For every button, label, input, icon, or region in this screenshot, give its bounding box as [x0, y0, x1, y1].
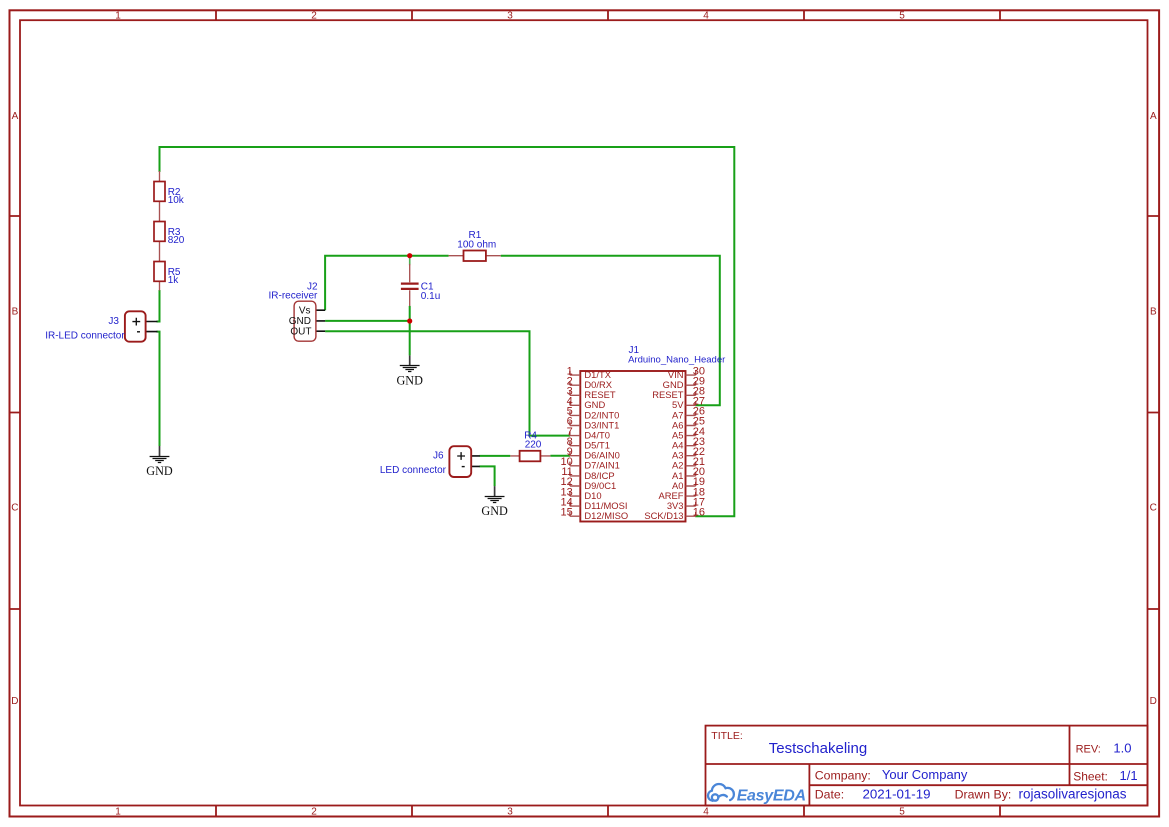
J1 pin 16 SCK/D13 — [644, 506, 705, 521]
J1 pin 12 D9/0C1 — [561, 476, 617, 491]
svg-text:820: 820 — [168, 235, 185, 246]
svg-text:Sheet:: Sheet: — [1073, 769, 1108, 783]
J1 pin 17 3V3 — [667, 496, 705, 511]
svg-text:2: 2 — [311, 11, 317, 22]
svg-text:rojasolivaresjonas: rojasolivaresjonas — [1019, 787, 1127, 802]
J1 pin 29 GND — [663, 375, 705, 390]
svg-text:OUT: OUT — [290, 327, 311, 338]
svg-text:3: 3 — [507, 11, 513, 22]
wire R1 right to J1 pin27 5V — [501, 256, 720, 406]
resistor R2 — [154, 171, 185, 222]
J1 pin 21 A2 — [672, 456, 705, 471]
J1 pin 20 A1 — [672, 466, 705, 481]
svg-text:J3: J3 — [108, 316, 119, 327]
connector J2 — [289, 301, 325, 341]
title block frame — [706, 726, 1148, 806]
J1 pin 23 A4 — [672, 436, 705, 451]
J1 pin 19 A0 — [672, 476, 705, 491]
resistor R3 — [154, 222, 185, 262]
wire R4 right to J1 pin9 D6/AIN0 — [550, 455, 570, 457]
resistor R1 — [449, 251, 501, 262]
ground below J6 — [481, 486, 508, 518]
svg-text:2021-01-19: 2021-01-19 — [863, 786, 931, 801]
wire R5 bottom to J3 pin + — [157, 290, 160, 322]
svg-text:D12/MISO: D12/MISO — [584, 510, 628, 521]
resistor R4 — [510, 451, 550, 462]
svg-text:C: C — [11, 503, 18, 514]
svg-text:Vs: Vs — [299, 306, 311, 317]
J1 pin 10 D7/AIN1 — [561, 456, 620, 471]
J1 pin 4 GND — [567, 396, 606, 411]
EasyEDA logo cloud — [708, 784, 734, 801]
J1 pin 6 D3/INT1 — [567, 416, 620, 431]
J1 pin 5 D2/INT0 — [567, 406, 620, 421]
svg-text:J6: J6 — [433, 451, 444, 462]
svg-text:3: 3 — [507, 807, 513, 818]
wire net VCC top: R2 top to J1 pin16 SCK/D13 — [160, 147, 735, 516]
J1 pin 24 A5 — [672, 426, 705, 441]
ground below J3 — [146, 446, 173, 478]
svg-text:Testschakeling: Testschakeling — [769, 740, 867, 757]
wire J3 pin - to GND — [157, 332, 160, 446]
svg-text:Date:: Date: — [815, 788, 844, 802]
J1 pin 9 D6/AIN0 — [567, 446, 620, 461]
resistor R5 — [154, 262, 181, 291]
svg-text:Arduino_Nano_Header: Arduino_Nano_Header — [628, 354, 725, 365]
J1 pin 11 D8/ICP — [561, 466, 614, 481]
IC J1 Arduino_Nano_Header body — [580, 371, 685, 522]
svg-text:5: 5 — [899, 11, 905, 22]
wire J6 pin - to GND — [480, 466, 495, 486]
svg-text:2: 2 — [311, 807, 317, 818]
svg-text:Your Company: Your Company — [882, 767, 968, 782]
svg-text:100 ohm: 100 ohm — [457, 240, 496, 251]
wire J6 pin + to R4 left — [480, 455, 511, 457]
J1 pin 27 5V — [672, 396, 705, 411]
wire J2 GND pin to junction — [325, 320, 410, 322]
svg-text:LED connector: LED connector — [380, 465, 447, 476]
capacitor C1 — [401, 264, 419, 306]
svg-text:1.0: 1.0 — [1113, 740, 1131, 755]
svg-text:16: 16 — [693, 506, 705, 518]
svg-text:A: A — [12, 111, 19, 122]
J1 pin 30 VIN — [668, 365, 705, 380]
J1 pin 3 RESET — [567, 386, 616, 401]
ruler row letters — [11, 111, 1157, 707]
J1 pin 14 D11/MOSI — [561, 496, 628, 511]
svg-text:D: D — [1150, 696, 1157, 707]
svg-text:Drawn By:: Drawn By: — [955, 788, 1012, 802]
J1 pin 15 D12/MISO — [561, 506, 629, 521]
svg-text:C: C — [1150, 503, 1157, 514]
wire C1 bottom to GND symbol — [409, 306, 411, 356]
svg-text:0.1u: 0.1u — [421, 291, 440, 302]
wire J2 Vs to R1 left — [325, 256, 449, 311]
svg-text:EasyEDA: EasyEDA — [737, 788, 806, 805]
svg-text:15: 15 — [561, 506, 573, 518]
svg-text:10k: 10k — [168, 195, 185, 206]
svg-text:D: D — [11, 696, 18, 707]
svg-text:1/1: 1/1 — [1120, 768, 1138, 783]
J1 pin 25 A6 — [672, 416, 705, 431]
svg-text:TITLE:: TITLE: — [711, 730, 743, 742]
svg-text:B: B — [12, 307, 19, 318]
svg-text:1: 1 — [115, 11, 121, 22]
junction dot at C1 top net — [407, 253, 412, 258]
J1 pin 22 A3 — [672, 446, 705, 461]
J1 pin 1 D1/TX — [567, 365, 612, 380]
J1 pin 26 A7 — [672, 406, 705, 421]
svg-text:GND: GND — [396, 373, 423, 387]
svg-text:5: 5 — [899, 807, 905, 818]
J1 pin 18 AREF — [658, 486, 705, 501]
svg-text:IR-LED connector: IR-LED connector — [45, 331, 125, 342]
J1 pin 28 RESET — [652, 386, 705, 401]
ground below J2/C1 — [396, 355, 423, 387]
ruler column numbers top — [115, 11, 905, 818]
J1 pin 2 D0/RX — [567, 375, 613, 390]
svg-text:SCK/D13: SCK/D13 — [644, 510, 683, 521]
svg-text:220: 220 — [525, 439, 542, 450]
svg-text:GND: GND — [481, 504, 508, 518]
J1 pin 8 D5/T1 — [567, 436, 610, 451]
wire J2 OUT to J1 pin7 D4/T0 — [325, 331, 570, 435]
svg-text:A: A — [1150, 111, 1157, 122]
J1 pin 7 D4/T0 — [567, 426, 610, 441]
svg-text:4: 4 — [703, 11, 709, 22]
svg-text:1: 1 — [115, 807, 121, 818]
svg-text:B: B — [1150, 307, 1157, 318]
connector J6 — [449, 446, 479, 477]
svg-text:REV:: REV: — [1076, 743, 1101, 755]
connector J3 — [125, 311, 158, 341]
junction dot at C1 bottom net — [407, 318, 412, 323]
svg-text:IR-receiver: IR-receiver — [268, 291, 318, 302]
svg-text:4: 4 — [703, 807, 709, 818]
svg-text:1k: 1k — [168, 275, 180, 286]
svg-text:Company:: Company: — [815, 768, 871, 782]
svg-text:GND: GND — [146, 464, 173, 478]
wire C1 top to junction — [409, 256, 411, 266]
J1 pin 13 D10 — [561, 486, 602, 501]
